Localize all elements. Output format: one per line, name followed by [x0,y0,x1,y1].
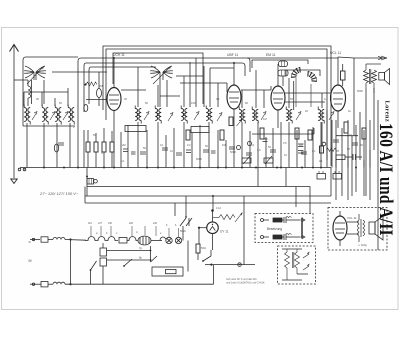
switch arrows tone [303,252,309,270]
svg-text:EM 11: EM 11 [266,53,276,57]
resistor R22 [362,128,366,139]
svg-text:VCL 11: VCL 11 [347,216,357,220]
wire EM stage [285,81,325,110]
tuning gang C1b [27,66,46,84]
heater chain chokes [85,237,166,244]
trimmer arrows can row [32,112,334,122]
wire tone box [282,249,308,280]
electrolytic C40 [100,243,151,256]
capacitor row low band [123,149,216,154]
wire UY cathode left [198,227,207,244]
wire top outer frame [103,46,331,166]
capacitor group coupling [58,140,358,155]
rectifier barrel [138,236,151,245]
svg-text:Besetzung: Besetzung [267,227,282,231]
wire mains junction vertical [69,238,71,285]
svg-text:n. Wdlg: n. Wdlg [358,243,367,247]
svg-text:2M: 2M [122,143,126,147]
tube U3 EM11 [266,53,285,128]
svg-text:160 A/I und A/II: 160 A/I und A/II [376,123,397,236]
tuning gang C2b [153,66,173,84]
antenna [10,45,19,168]
svg-text:0,1: 0,1 [216,97,220,101]
resistor R24 output cathode [336,155,352,160]
transformer core tone box [292,252,294,268]
svg-text:220: 220 [129,222,134,225]
band switch fan S1 [291,67,300,107]
wire inner box UCH11 stage [113,53,203,104]
lamp La2 [175,237,181,243]
resistor R40 [196,244,200,260]
svg-text:0,1: 0,1 [324,97,328,101]
dashed box speaker variant [328,208,387,251]
svg-text:2M: 2M [99,84,103,88]
svg-text:0,5: 0,5 [257,148,261,152]
wire output stage drops [322,88,374,200]
label 160 A/I und A/II [376,123,397,236]
tube U2 UBF11 [227,53,241,128]
antenna arrow output [354,56,387,60]
coil bracket L8 [298,144,304,153]
dashed box Besetzung [255,214,313,243]
chassis terminals [18,168,26,171]
resistor box network [152,267,183,276]
IF can G [181,106,187,124]
trimmer C6 oval [84,105,88,112]
electrolytic C41 [100,258,151,284]
svg-text:127: 127 [98,222,103,225]
tap tick labels [88,222,177,227]
capacitor C8 oval [54,144,58,152]
svg-text:UCL 11: UCL 11 [330,51,341,55]
fuse F1 [41,237,53,242]
label Bf [29,240,32,263]
tube U1 UCH11 [86,53,125,128]
mains terminal upper [30,238,40,240]
label PSU note [226,277,265,285]
wire output top right [338,57,354,135]
bus PSU lower [205,264,255,266]
lamp La1 [166,237,172,243]
svg-text:0,1: 0,1 [160,143,164,147]
svg-text:Lorenz: Lorenz [384,101,391,123]
coil mains choke lower [53,282,214,284]
svg-text:50Ω: 50Ω [201,246,206,250]
terminal block TB1 [317,171,326,179]
svg-text:UCH 11: UCH 11 [113,53,125,57]
resistor surge zigzag [213,215,235,220]
wire gang link [24,91,68,93]
zigzag resistor Z2 [295,249,300,274]
switch S6 [123,259,132,267]
tuning gang C1a [24,66,34,80]
wire coupling loops left [78,58,250,140]
tuning gang C2a [150,66,160,80]
potentiometer arrow P3 [235,213,242,222]
svg-text:7μ: 7μ [139,246,143,250]
switch S7 [202,250,211,262]
label Lorenz [384,101,391,123]
connector jack [238,263,242,267]
IF can D [68,105,74,125]
fuse F2 [41,282,53,287]
tube U6 VCL11 [333,211,357,246]
IF can K [286,107,292,124]
svg-text:Bf: Bf [29,259,32,263]
label cap values [139,246,143,260]
svg-text:UBF 11: UBF 11 [227,53,238,57]
wire vertical drops to ground bus [27,120,370,168]
svg-text:5000: 5000 [357,89,363,93]
wire AVC long [252,128,314,134]
wire heater return vertical [188,241,214,285]
tube U4 UCL11 [330,51,346,128]
IF can I [239,107,245,124]
IF can J [252,107,258,124]
transformer T2 [358,214,365,242]
ground bus main [20,167,331,169]
rectifier tube V5 UY11 [207,207,229,250]
svg-text:0,5: 0,5 [283,141,287,145]
svg-text:UY 11: UY 11 [220,230,229,234]
oscillator coil former K2 [278,70,288,86]
wire interstage horizontals [52,58,338,96]
IF can L [318,107,324,124]
svg-text:1M: 1M [222,143,226,147]
wire speaker box [347,222,367,247]
svg-text:0,1: 0,1 [312,149,316,153]
terminal block TB2 [333,171,342,179]
resistor R19 [320,146,324,153]
zigzag R21 [327,148,337,151]
resistor R13 [229,117,242,126]
svg-text:100: 100 [191,101,196,105]
switch box SB2 [191,127,209,133]
oscillator coil former K1 [279,61,288,67]
svg-text:5000: 5000 [196,157,202,161]
IF can E [135,106,141,124]
Besetzung row 1 [261,217,306,223]
potentiometer P2 tone [264,156,273,164]
switch box SB1 [125,126,146,132]
junction dots top [43,57,357,197]
IF can B [42,105,48,125]
ground [11,168,17,184]
resistor R30 [341,64,346,86]
resistor group screen dividers [86,128,114,168]
tap ticks above chokes [91,226,179,237]
rail B+ lower [85,100,378,265]
resistor R12 [220,130,224,140]
value labels scattered [36,84,363,250]
svg-text:0,1: 0,1 [101,151,105,155]
resistor AGC zigzag [84,82,97,86]
wire antenna loop left [23,57,78,126]
svg-text:110: 110 [88,222,92,225]
svg-text:und Leitu U\u00b7M1 und G M1K: und Leitu U\u00b7M1 und G M1K [226,281,265,285]
switch mains S3 [180,196,192,241]
svg-text:1M: 1M [299,143,303,147]
coil mains choke upper [53,238,86,241]
svg-text:0,1A: 0,1A [216,207,221,210]
IF can C [55,105,61,125]
capacitor C30 output [353,154,362,160]
IF can F [155,106,161,124]
svg-text:Auf Leitu bfr K und das M1: Auf Leitu bfr K und das M1 [226,277,257,281]
zigzag resistor Z1 [285,249,290,280]
wire interstage verticals [24,58,322,108]
dashed box tone network [278,246,316,284]
antenna coil L1 [14,80,31,106]
speaker LS2 [369,216,383,240]
resistor R18 [308,130,312,140]
trimmer circles mid [237,142,326,150]
svg-text:150: 150 [108,222,113,225]
wire gang leads [32,62,205,107]
svg-text:27~ 110/ 127/ 150 V~: 27~ 110/ 127/ 150 V~ [39,191,79,196]
resistor R10 [186,130,190,140]
svg-text:0,2: 0,2 [187,143,191,147]
rail B+ upper [87,168,296,208]
band switch fan S2 [308,71,317,107]
wire Besetzung bar [301,218,303,239]
Besetzung label [267,227,282,231]
mains filter block FR [87,179,97,185]
svg-text:0,1: 0,1 [251,143,255,147]
resistor R14 [260,128,264,139]
potentiometer P1 volume [242,156,251,164]
switch S4 [150,246,157,262]
svg-text:240: 240 [153,222,158,225]
trimmer C5 [97,72,102,106]
resistor R20 [344,122,348,133]
svg-text:8μ: 8μ [139,256,143,260]
svg-text:5000: 5000 [230,150,236,154]
wire oscillator loops right [252,60,320,76]
label mains voltages [39,191,79,196]
capacitor C22 bars [263,139,268,142]
svg-text:0,1: 0,1 [319,159,323,163]
speaker LS1 [379,69,390,85]
IF can row A [24,105,30,125]
resistor R16 [295,128,299,139]
svg-text:0,1: 0,1 [121,159,125,163]
mains terminal lower [30,283,41,285]
switch S5 [90,261,97,284]
svg-text:1M: 1M [263,117,267,121]
IF can H [206,106,212,124]
Besetzung row 2 [261,234,306,240]
svg-text:0,1: 0,1 [349,133,353,137]
output transformer T1 [364,64,382,93]
